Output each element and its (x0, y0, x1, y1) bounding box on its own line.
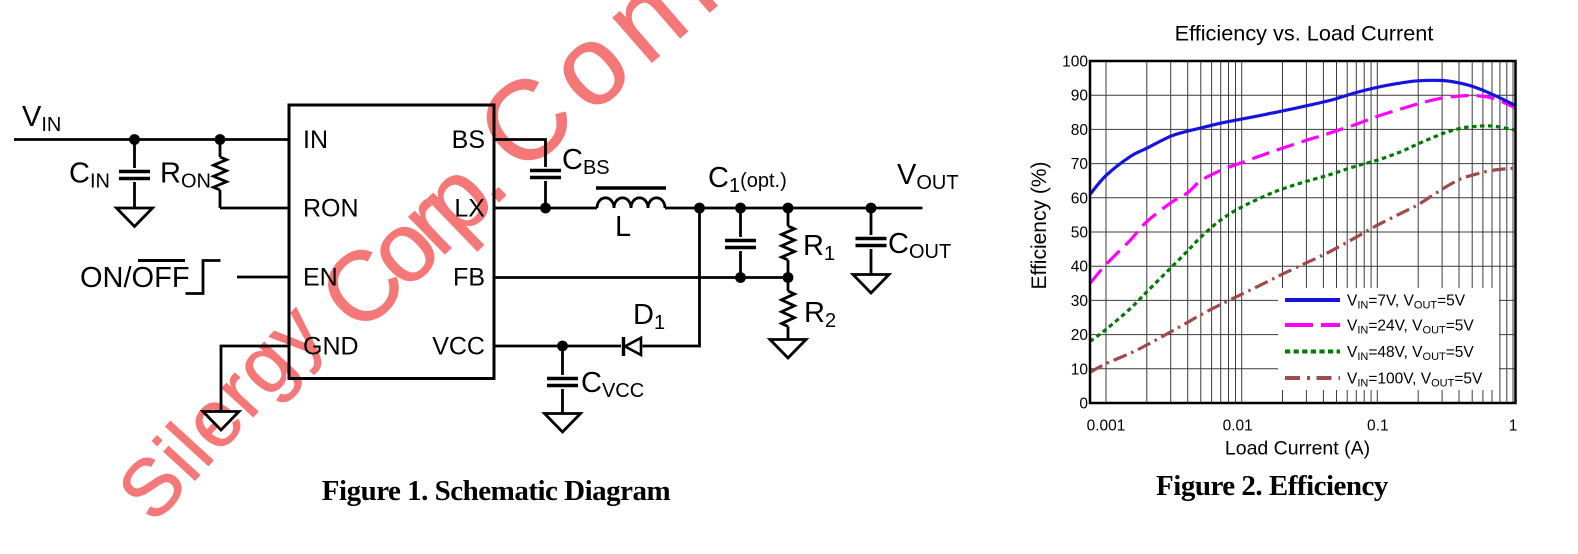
svg-text:Load Current (A): Load Current (A) (1225, 438, 1370, 460)
svg-text:Confidential: Confidential (454, 0, 1091, 195)
svg-text:COUT: COUT (888, 228, 951, 263)
node RON tap on VIN (215, 134, 226, 145)
svg-text:Figure 2. Efficiency: Figure 2. Efficiency (1156, 470, 1389, 502)
svg-text:20: 20 (1071, 327, 1089, 344)
curve blue (1090, 80, 1516, 194)
capacitor CIN (119, 172, 150, 179)
svg-text:C1(opt.): C1(opt.) (708, 162, 787, 197)
svg-text:VIN=100V, VOUT=5V: VIN=100V, VOUT=5V (1347, 371, 1483, 390)
svg-text:VIN: VIN (22, 101, 61, 136)
svg-text:100: 100 (1062, 54, 1088, 71)
svg-text:LX: LX (454, 195, 485, 223)
svg-text:GND: GND (303, 333, 359, 361)
svg-text:BS: BS (452, 126, 485, 154)
node R1/R2 divider on FB (783, 272, 794, 283)
capacitor COUT (856, 239, 887, 246)
svg-text:0.01: 0.01 (1223, 418, 1253, 435)
svg-text:10: 10 (1071, 361, 1089, 378)
svg-text:0.001: 0.001 (1087, 418, 1126, 435)
svg-text:EN: EN (303, 264, 338, 292)
svg-text:Efficiency (%): Efficiency (%) (1028, 162, 1051, 290)
capacitor C1 wires (739, 208, 742, 237)
wire BS pin (494, 140, 546, 168)
wire GND pin (221, 346, 289, 412)
node CBS-LX junction (540, 203, 551, 214)
curve green (1090, 126, 1516, 342)
IC U1 body (289, 105, 494, 379)
svg-text:70: 70 (1071, 156, 1089, 173)
svg-text:R2: R2 (804, 297, 836, 332)
svg-text:0: 0 (1079, 396, 1088, 413)
svg-text:L: L (615, 211, 631, 243)
wire diode anode to output node (643, 208, 700, 346)
wire EN pin (237, 276, 289, 279)
svg-text:FB: FB (453, 264, 485, 292)
svg-text:RON: RON (303, 195, 359, 223)
legend background (1278, 288, 1499, 390)
node COUT tap on VOUT (866, 203, 877, 214)
node C1 bottom on FB (735, 272, 746, 283)
curve brown (1090, 168, 1516, 372)
resistor R1 (782, 226, 795, 260)
resistor R2 (782, 291, 795, 327)
svg-text:1: 1 (1509, 418, 1518, 435)
ground for R2 (770, 340, 806, 359)
node inductor output / D1 cathode net (694, 203, 705, 214)
svg-text:ON/OFF: ON/OFF (80, 262, 190, 294)
svg-text:90: 90 (1071, 88, 1089, 105)
node C1 tap on VOUT (735, 203, 746, 214)
diode D1 (622, 337, 625, 356)
svg-text:D1: D1 (633, 299, 665, 334)
svg-text:RON: RON (160, 158, 211, 193)
node CIN tap on VIN (129, 134, 140, 145)
svg-text:0.1: 0.1 (1367, 418, 1389, 435)
wire VIN input (14, 138, 289, 141)
wire FB pin (494, 276, 788, 279)
inductor L (596, 186, 666, 189)
svg-text:40: 40 (1071, 259, 1089, 276)
node CVCC tap on VCC (557, 341, 568, 352)
overline on OFF (138, 259, 185, 262)
svg-text:50: 50 (1071, 225, 1089, 242)
svg-text:80: 80 (1071, 122, 1089, 139)
svg-text:IN: IN (303, 126, 328, 154)
ground for CIN (117, 208, 153, 227)
capacitor CVCC (547, 379, 578, 386)
capacitor CBS (530, 171, 561, 178)
svg-text:VCC: VCC (432, 333, 485, 361)
capacitor CVCC wires (561, 346, 564, 375)
svg-text:Efficiency vs. Load Current: Efficiency vs. Load Current (1175, 21, 1434, 46)
wire RON pin (220, 207, 289, 210)
ground for GND pin (203, 412, 239, 431)
svg-text:Figure 1. Schematic Diagram: Figure 1. Schematic Diagram (322, 475, 671, 507)
svg-text:VOUT: VOUT (897, 159, 959, 194)
svg-text:R1: R1 (803, 230, 835, 265)
wire CBS to LX (544, 181, 547, 208)
graph grid (1090, 61, 1516, 403)
wire RON branch (219, 140, 222, 158)
ground for CVCC (545, 414, 581, 433)
resistor RON (214, 157, 227, 190)
svg-text:30: 30 (1071, 293, 1089, 310)
ground for COUT (853, 275, 889, 294)
svg-text:Corp.: Corp. (298, 130, 522, 351)
capacitor C1 (725, 241, 756, 248)
svg-text:60: 60 (1071, 190, 1089, 207)
wire VCC pin (494, 345, 621, 348)
resistor R2 wires (787, 278, 790, 292)
plot border (1090, 61, 1516, 403)
legend green line (1285, 350, 1340, 354)
legend blue line (1285, 298, 1340, 302)
svg-text:CVCC: CVCC (581, 367, 644, 402)
wire LX pin (494, 207, 597, 210)
legend magenta line (1285, 323, 1340, 327)
resistor R1 wires (787, 208, 790, 226)
capacitor COUT wires (870, 208, 873, 235)
curve magenta (1090, 95, 1516, 283)
watermark "Silergy Corp. Confidential" (101, 0, 1091, 536)
wire LX node to VOUT (665, 207, 923, 210)
pulse symbol on EN (186, 261, 221, 294)
legend brown line (1285, 376, 1340, 380)
node R1 top on VOUT (783, 203, 794, 214)
capacitor CIN vertical wires (133, 140, 136, 169)
svg-text:CIN: CIN (69, 158, 110, 193)
